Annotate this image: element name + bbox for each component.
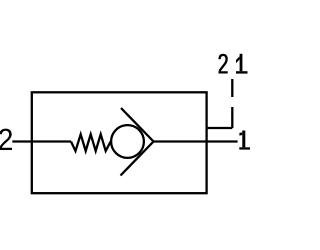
port 1 label (239, 131, 251, 150)
pilot connector wire (207, 127, 233, 129)
pilot line dashed segment b (231, 107, 233, 128)
port 1 wire (154, 140, 238, 142)
pilot line dashed segment a (231, 79, 233, 97)
port 2 label (0, 129, 12, 150)
check valve ball (111, 125, 144, 158)
spring (71, 134, 111, 151)
pilot port label 21 (219, 55, 228, 72)
port 2 wire (12, 140, 71, 142)
valve enclosure box (32, 92, 207, 193)
valve seat (121, 108, 154, 176)
